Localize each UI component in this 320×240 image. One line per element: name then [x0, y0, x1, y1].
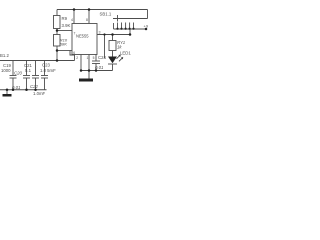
svg-text:SB1.1: SB1.1: [100, 11, 112, 16]
svg-text:C20: C20: [14, 70, 22, 75]
node cap rail: [56, 59, 59, 62]
resistor R9: [54, 16, 61, 29]
node rail pin8: [88, 8, 91, 11]
svg-text:4: 4: [71, 18, 73, 22]
svg-text:1: 1: [87, 56, 89, 60]
wire pin1 ground stub: [88, 55, 90, 79]
wire link bus to pin3 wire: [129, 29, 131, 35]
svg-text:68K: 68K: [60, 41, 67, 46]
wire pin8 stub: [88, 10, 90, 24]
svg-text:C22: C22: [30, 84, 38, 89]
svg-text:1.0 5mF: 1.0 5mF: [40, 68, 56, 73]
resistor R10: [54, 35, 61, 47]
node gnd left: [6, 89, 9, 92]
svg-text:3.9K: 3.9K: [62, 23, 71, 28]
node gnd bus pin2: [80, 69, 83, 72]
wire R10 bottom lead: [56, 46, 58, 61]
svg-text:R9: R9: [62, 16, 68, 21]
svg-text:NE555: NE555: [76, 33, 89, 38]
wire header stub 4: [129, 23, 131, 30]
wire step down: [70, 51, 75, 61]
node pin3 wire a: [103, 33, 105, 35]
LED1 cathode bar: [108, 63, 117, 65]
LED1 arrows: [117, 55, 124, 62]
node gnd bus C24: [95, 69, 98, 72]
node cap3 bottom: [34, 89, 37, 92]
capacitor C19: [12, 61, 14, 76]
wire pin6 branch: [57, 50, 72, 52]
switch SB1.1 lever tick: [117, 15, 119, 22]
node cap1 bottom: [12, 89, 15, 92]
svg-text:LED1: LED1: [120, 51, 131, 56]
wire top supply rail: [57, 9, 148, 11]
svg-text:0.01: 0.01: [95, 65, 104, 70]
wire ground bus: [81, 70, 113, 72]
capacitor C20: [26, 61, 28, 76]
wire LED to bus: [112, 64, 114, 71]
node R10 bottom: [56, 49, 59, 52]
svg-text:5: 5: [93, 56, 95, 60]
node rail pin4: [73, 8, 76, 11]
switch SB1.1 contact line: [113, 18, 148, 20]
capacitor C22: [35, 61, 37, 76]
svg-text:6: 6: [73, 51, 75, 55]
node bus stub3: [125, 28, 127, 30]
relay RY1 coil: [112, 35, 114, 41]
wire R9 bottom lead: [56, 29, 58, 35]
node pin3 wire relay: [111, 33, 114, 36]
wire pin2 stub: [80, 55, 82, 71]
node R9 R10 pin7: [56, 29, 59, 32]
svg-text:B1.2: B1.2: [0, 53, 9, 58]
wire pin4 stub: [73, 10, 75, 24]
wire R9 top lead: [56, 10, 58, 16]
svg-text:C23: C23: [42, 63, 50, 68]
LED1 triangle: [108, 57, 117, 64]
wire ground stub left: [6, 90, 8, 94]
svg-text:8: 8: [86, 18, 88, 22]
ground bar left: [3, 94, 12, 97]
wire header stub 5: [133, 23, 135, 30]
svg-text:1000: 1000: [1, 68, 11, 73]
capacitor C23: [44, 61, 46, 76]
ground bar center: [79, 79, 93, 82]
svg-text:+9: +9: [144, 23, 149, 28]
node cap2 bottom: [25, 89, 28, 92]
svg-text:1.0mF: 1.0mF: [33, 91, 46, 96]
wire right drop to switch: [147, 10, 149, 19]
wire drop at 104: [104, 35, 106, 59]
node bus end: [145, 28, 148, 31]
node gnd bus pin1: [88, 69, 91, 72]
wire pin3 output: [97, 34, 130, 36]
node bus stub2: [120, 28, 122, 30]
svg-text:5.1: 5.1: [25, 68, 32, 73]
svg-text:C24: C24: [98, 55, 106, 60]
node bus stub5: [132, 28, 134, 30]
wire header stub 3: [125, 23, 127, 30]
svg-text:0.01: 0.01: [12, 85, 21, 90]
node bus stub4: [129, 28, 131, 30]
node bus stub1: [116, 28, 118, 30]
IC U1 NE555 body: [72, 24, 97, 55]
wire cap rail top: [0, 60, 75, 62]
wire cap rail bottom: [0, 89, 47, 91]
wire header stub 1: [117, 23, 119, 30]
wire bus left stub: [113, 23, 115, 29]
svg-text:2: 2: [76, 56, 78, 60]
wire pin7 to IC: [57, 30, 72, 32]
svg-text:3: 3: [99, 30, 101, 34]
node pin3 wire end: [129, 33, 132, 36]
wire +9 bus: [114, 28, 147, 30]
capacitor C24: [95, 55, 97, 62]
wire header stub 2: [121, 23, 123, 30]
